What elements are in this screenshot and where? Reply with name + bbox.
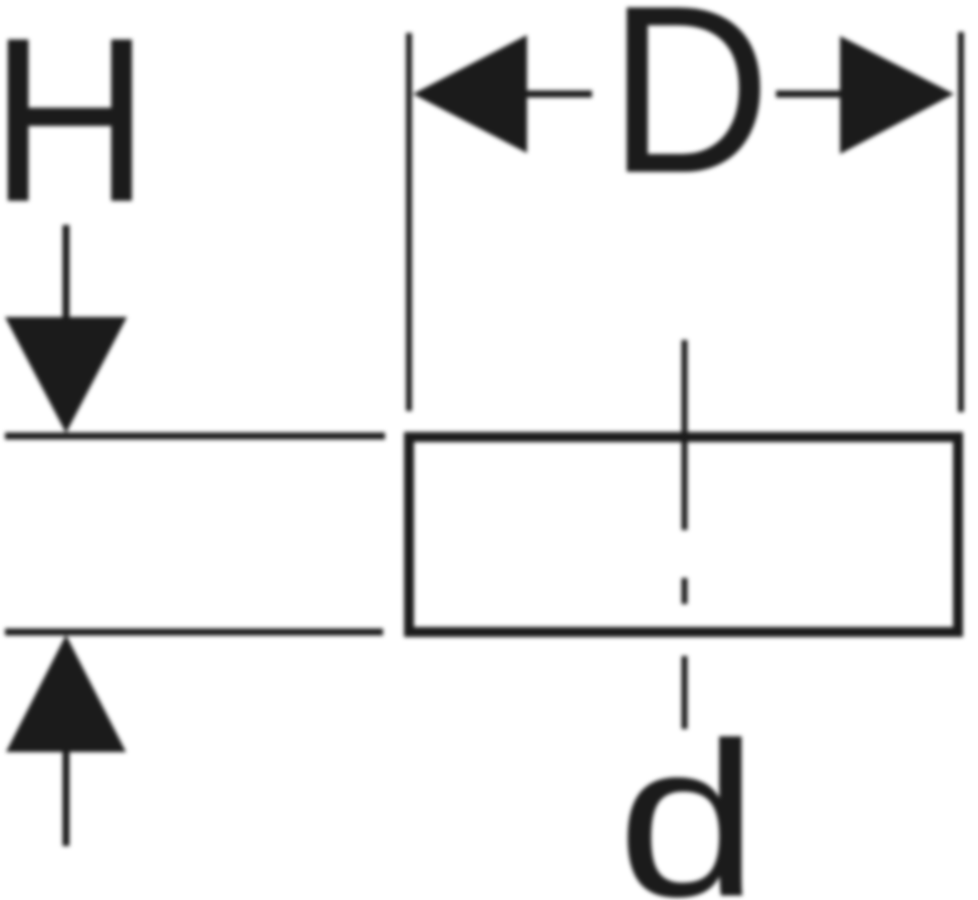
svg-text:H: H: [0, 0, 150, 251]
D dimension arrow left: head: [413, 35, 527, 153]
H dimension arrow down: head: [5, 317, 127, 433]
D dimension arrow right: tail line: [776, 91, 846, 98]
part outline: rectangle (disc cross-section): [409, 437, 958, 632]
H dimension arrow up: stem: [63, 745, 70, 846]
wire: bottom surface extension line (left): [5, 629, 383, 636]
H dimension arrow down: stem: [63, 225, 70, 330]
svg-text:d: d: [617, 698, 759, 900]
extension line: left (D dimension): [406, 33, 412, 411]
svg-text:D: D: [608, 0, 770, 223]
wire: top surface extension line (left): [5, 433, 385, 440]
D dimension arrow right: head: [840, 36, 954, 154]
H dimension arrow up: head: [6, 635, 126, 752]
centre line: long segment through rectangle top: [682, 340, 688, 530]
D dimension arrow left: tail line: [522, 91, 592, 98]
extension line: right (D dimension): [958, 32, 964, 412]
centre line: short dash: [682, 578, 688, 604]
centre line: segment below rectangle: [682, 656, 688, 729]
